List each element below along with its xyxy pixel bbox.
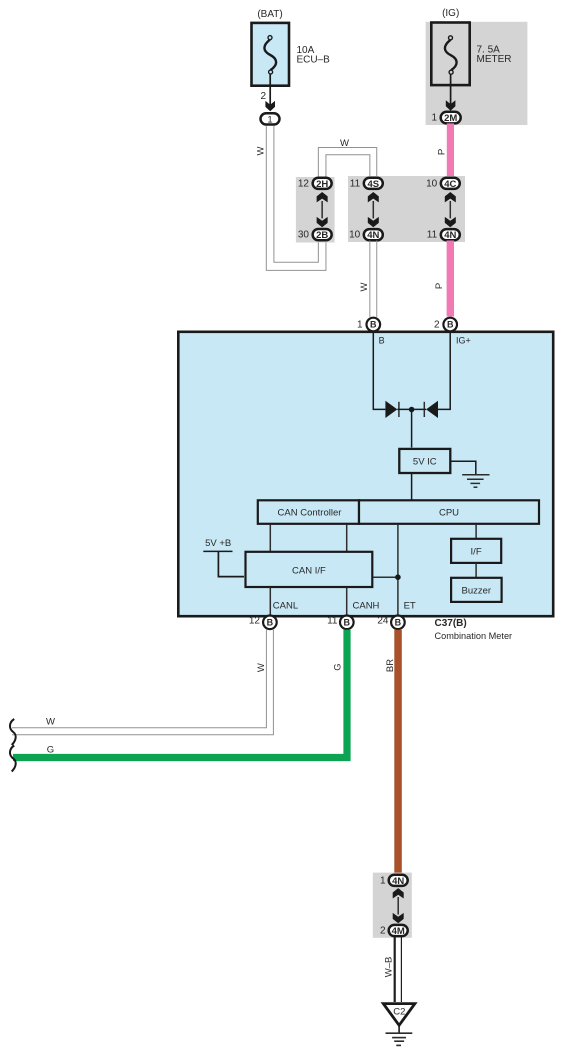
wire 5V +B to CAN I/F bbox=[218, 551, 244, 576]
wire diode junction bbox=[397, 408, 426, 410]
fuse F1 element bbox=[264, 36, 276, 74]
svg-text:CPU: CPU bbox=[439, 508, 459, 519]
svg-text:ECU–B: ECU–B bbox=[297, 55, 331, 66]
wire C2 to ground bbox=[398, 1026, 400, 1034]
svg-text:W: W bbox=[340, 138, 349, 149]
svg-text:W: W bbox=[359, 282, 370, 291]
wire P: 4N to meter pin 2 (pink) bbox=[447, 241, 454, 317]
ground symbol bbox=[386, 1033, 413, 1045]
junction connector 2B bbox=[313, 229, 332, 240]
svg-text:C37(B): C37(B) bbox=[435, 618, 467, 629]
wire P: 2M to 4C (pink) bbox=[447, 123, 454, 177]
svg-text:B: B bbox=[344, 617, 351, 627]
svg-text:11: 11 bbox=[327, 616, 338, 627]
svg-text:1: 1 bbox=[380, 875, 386, 886]
svg-text:11: 11 bbox=[427, 230, 438, 241]
wire 5V IC to CPU bbox=[411, 474, 413, 500]
svg-text:4N: 4N bbox=[392, 876, 404, 887]
wire CPU to ET pin bbox=[397, 525, 399, 616]
block Buzzer bbox=[451, 578, 502, 602]
wire I/F to Buzzer bbox=[475, 563, 477, 578]
svg-text:4N: 4N bbox=[367, 230, 379, 241]
svg-text:BR: BR bbox=[385, 659, 396, 672]
wire W: oval 1 down to junction connector 2B bbox=[266, 126, 326, 271]
junction connector block 4S/4N/4C/4N shading bbox=[348, 176, 465, 242]
block CAN I/F bbox=[246, 552, 373, 587]
mating arrows 4C-4N bbox=[445, 192, 456, 227]
svg-text:CANH: CANH bbox=[353, 600, 380, 611]
svg-text:CANL: CANL bbox=[273, 600, 298, 611]
wire CAN I/F to pin 12 (CANL) bbox=[269, 588, 271, 616]
svg-text:12: 12 bbox=[298, 179, 310, 190]
wire CAN I/F to pin 11 (CANH) bbox=[346, 588, 348, 616]
svg-text:(BAT): (BAT) bbox=[257, 9, 282, 20]
svg-text:1: 1 bbox=[357, 320, 363, 331]
wire BR: pin 24 to connector 4N (brown) bbox=[394, 630, 402, 875]
wire node to 5V IC bbox=[411, 410, 413, 448]
svg-text:10: 10 bbox=[426, 179, 438, 190]
node diode junction dot bbox=[409, 407, 415, 413]
svg-text:CAN I/F: CAN I/F bbox=[292, 565, 326, 576]
wire W: pin 12 to page link bbox=[12, 630, 273, 735]
svg-text:(IG): (IG) bbox=[442, 8, 459, 19]
connector oval 1 bbox=[261, 113, 280, 124]
connector arrow into oval 1 bbox=[265, 101, 275, 111]
connector 4N (bottom) bbox=[389, 875, 408, 886]
svg-text:2: 2 bbox=[260, 91, 266, 102]
block I/F bbox=[451, 539, 501, 563]
svg-text:4N: 4N bbox=[444, 230, 456, 241]
meter pin 1 B bbox=[367, 318, 381, 332]
junction connector 2H bbox=[313, 178, 332, 189]
wire W-B: 4M to ground C2 bbox=[395, 937, 402, 1002]
svg-text:ET: ET bbox=[404, 600, 416, 611]
svg-text:12: 12 bbox=[249, 616, 261, 627]
svg-text:G: G bbox=[333, 663, 344, 670]
diode D2 bbox=[424, 401, 438, 418]
regulator U1 5V IC bbox=[399, 449, 450, 473]
meter pin 2 B bbox=[443, 318, 457, 332]
supply bar 5V +B bbox=[203, 550, 232, 552]
svg-text:W: W bbox=[46, 717, 55, 728]
connector 4M bbox=[389, 925, 408, 936]
diode D1 bbox=[385, 401, 399, 418]
svg-text:P: P bbox=[436, 149, 447, 155]
junction connector block 2H/2B shading bbox=[296, 177, 335, 243]
wire CPU to I/F bbox=[475, 525, 477, 539]
meter pin 11 B bbox=[340, 616, 354, 630]
svg-text:30: 30 bbox=[298, 230, 310, 241]
svg-text:C2: C2 bbox=[393, 1006, 405, 1017]
ground (internal) bbox=[462, 475, 489, 487]
svg-text:4M: 4M bbox=[392, 926, 405, 937]
svg-text:G: G bbox=[47, 744, 54, 755]
svg-text:4C: 4C bbox=[444, 179, 456, 190]
mating arrows 2H-2B bbox=[317, 192, 328, 227]
svg-text:METER: METER bbox=[477, 54, 512, 65]
svg-text:CAN Controller: CAN Controller bbox=[278, 508, 342, 519]
connector oval 2M bbox=[441, 112, 461, 124]
wire pin 1 to diode D1 bbox=[373, 332, 385, 409]
node ET junction dot bbox=[395, 574, 401, 580]
block CAN Controller bbox=[258, 500, 359, 524]
wire CAN Controller to CAN I/F (left) bbox=[269, 525, 271, 552]
wire fuse F2 to connector 2M bbox=[450, 74, 452, 109]
svg-text:Combination Meter: Combination Meter bbox=[435, 631, 513, 641]
svg-text:W–B: W–B bbox=[383, 957, 394, 978]
svg-text:4S: 4S bbox=[367, 179, 379, 190]
page link squiggle (W wire) bbox=[10, 719, 16, 745]
ground connector C2 triangle bbox=[383, 1004, 415, 1026]
page link squiggle (G wire) bbox=[10, 746, 16, 772]
svg-text:2B: 2B bbox=[316, 230, 328, 241]
svg-text:B: B bbox=[267, 617, 274, 627]
wire 5V IC to internal ground bbox=[451, 461, 476, 474]
svg-text:5V +B: 5V +B bbox=[205, 538, 231, 549]
svg-text:I/F: I/F bbox=[471, 546, 482, 557]
svg-text:1: 1 bbox=[267, 114, 272, 125]
wire CAN Controller to CAN I/F (right) bbox=[346, 525, 348, 552]
fuse F2 element bbox=[445, 36, 457, 74]
wire pin 2 to diode D2 bbox=[438, 332, 450, 409]
block CPU bbox=[359, 500, 539, 524]
junction connector 4S bbox=[364, 178, 383, 189]
mating arrows 4N-4M bbox=[393, 888, 404, 923]
svg-text:W: W bbox=[256, 663, 267, 672]
junction connector 4N (right) bbox=[441, 229, 460, 240]
junction connector 4C bbox=[441, 178, 460, 189]
fuse F1 box (10A ECU-B) bbox=[252, 23, 290, 86]
svg-text:11: 11 bbox=[350, 179, 361, 190]
junction connector 4N (left) bbox=[364, 229, 383, 240]
svg-text:IG+: IG+ bbox=[456, 336, 471, 346]
svg-text:2: 2 bbox=[434, 320, 440, 331]
svg-text:2M: 2M bbox=[444, 113, 457, 124]
svg-text:5V IC: 5V IC bbox=[413, 456, 437, 467]
svg-text:Buzzer: Buzzer bbox=[462, 585, 492, 596]
meter pin 24 B bbox=[391, 616, 405, 630]
wire CAN I/F to ET node bbox=[373, 576, 398, 578]
svg-text:B: B bbox=[370, 320, 377, 330]
svg-text:1: 1 bbox=[431, 113, 437, 124]
junction block shading (IG power source) bbox=[426, 22, 528, 125]
svg-text:B: B bbox=[395, 617, 402, 627]
svg-text:W: W bbox=[255, 146, 266, 155]
wire W: 2H up and over to 4S bbox=[318, 148, 376, 178]
svg-text:2H: 2H bbox=[316, 179, 328, 190]
svg-text:2: 2 bbox=[380, 926, 386, 937]
svg-text:B: B bbox=[447, 320, 454, 330]
svg-text:24: 24 bbox=[377, 616, 389, 627]
mating arrows 4S-4N bbox=[368, 192, 379, 227]
meter pin 12 B bbox=[263, 616, 277, 630]
connector arrow into oval 2M bbox=[446, 100, 456, 110]
svg-text:B: B bbox=[379, 336, 385, 346]
wire G: pin 11 to page link (green) bbox=[13, 630, 347, 758]
wire fuse F1 to connector 1 bbox=[269, 74, 271, 110]
svg-text:10: 10 bbox=[349, 230, 361, 241]
connector block 4N/4M shading bbox=[373, 873, 412, 938]
combination meter body bbox=[178, 332, 553, 616]
svg-text:P: P bbox=[434, 283, 445, 289]
wire W: 4N to meter pin 1 bbox=[370, 241, 377, 318]
fuse F2 box (7.5A METER) bbox=[431, 23, 469, 86]
